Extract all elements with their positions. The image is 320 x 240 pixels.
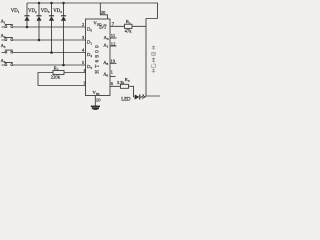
svg-text:3.3k: 3.3k — [117, 80, 125, 85]
svg-text:47k: 47k — [125, 28, 133, 33]
svg-text:7: 7 — [112, 21, 115, 26]
svg-text:6: 6 — [111, 81, 114, 86]
svg-text:11: 11 — [111, 33, 116, 38]
svg-text:12: 12 — [111, 41, 116, 46]
svg-text:4: 4 — [82, 48, 85, 53]
svg-text:2: 2 — [82, 22, 85, 27]
svg-text:1: 1 — [111, 70, 114, 75]
svg-text:220k: 220k — [51, 75, 61, 80]
svg-text:A1: A1 — [103, 43, 108, 49]
svg-text:D2: D2 — [87, 52, 92, 58]
svg-text:D/T: D/T — [99, 25, 107, 30]
svg-text:A8: A8 — [103, 60, 108, 66]
svg-text:9: 9 — [84, 80, 87, 85]
svg-text:HT6800: HT6800 — [95, 43, 101, 74]
svg-text:A2: A2 — [1, 33, 6, 39]
svg-text:VD2: VD2 — [28, 9, 37, 14]
svg-text:VD1: VD1 — [11, 9, 20, 14]
svg-text:20: 20 — [101, 10, 106, 15]
svg-text:A9: A9 — [103, 72, 108, 78]
svg-text:LED: LED — [121, 97, 131, 102]
svg-text:10: 10 — [96, 97, 101, 102]
svg-text:VD4: VD4 — [53, 9, 62, 14]
svg-text:R3: R3 — [125, 77, 130, 83]
svg-text:VD3: VD3 — [41, 9, 50, 14]
svg-text:A1: A1 — [1, 19, 6, 25]
svg-text:A0: A0 — [104, 35, 109, 41]
svg-text:3: 3 — [82, 35, 85, 40]
svg-text:D3: D3 — [87, 64, 92, 70]
svg-text:A4: A4 — [1, 58, 6, 64]
svg-text:D1: D1 — [87, 40, 92, 46]
svg-text:D0: D0 — [87, 27, 92, 33]
svg-text:19: 19 — [111, 58, 116, 63]
svg-text:5: 5 — [82, 60, 85, 65]
svg-text:A3: A3 — [1, 43, 6, 49]
